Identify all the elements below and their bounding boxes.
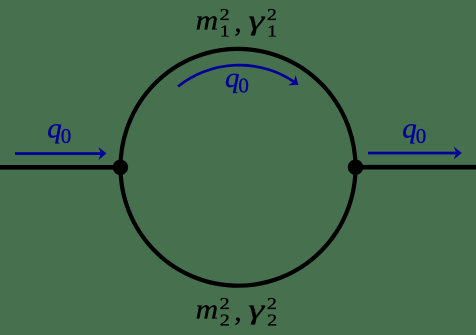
arrow q0 left (momentum in)	[15, 147, 107, 160]
arrow q0 right (momentum out)	[368, 147, 462, 160]
svg-text:0: 0	[238, 73, 249, 97]
svg-text:1: 1	[267, 22, 277, 41]
svg-text:2: 2	[267, 311, 277, 330]
svg-text:γ: γ	[248, 295, 265, 326]
vertex right node	[348, 160, 363, 175]
label q0 loop	[225, 62, 249, 97]
label m1^2, gamma1^2 (top propagator)	[196, 5, 278, 41]
svg-text:m: m	[196, 295, 219, 326]
svg-text:q: q	[225, 62, 240, 94]
svg-text:0: 0	[416, 124, 427, 148]
label q0 right	[402, 113, 426, 149]
svg-text:,: ,	[234, 7, 241, 38]
vertex left node	[113, 160, 128, 175]
label q0 left	[47, 113, 71, 149]
label m2^2, gamma2^2 (bottom propagator)	[196, 294, 278, 330]
svg-text:q: q	[47, 113, 62, 145]
svg-text:0: 0	[61, 124, 72, 148]
svg-text:γ: γ	[248, 6, 265, 37]
wire: right external leg	[355, 165, 476, 170]
arrow q0 loop (curved momentum arrow)	[178, 65, 298, 86]
svg-text:,: ,	[234, 297, 241, 328]
loop propagator circle	[121, 49, 356, 286]
svg-text:q: q	[402, 113, 417, 145]
svg-text:m: m	[196, 6, 219, 37]
svg-text:2: 2	[220, 311, 230, 330]
svg-text:1: 1	[220, 22, 230, 41]
wire: left external leg	[0, 165, 121, 170]
